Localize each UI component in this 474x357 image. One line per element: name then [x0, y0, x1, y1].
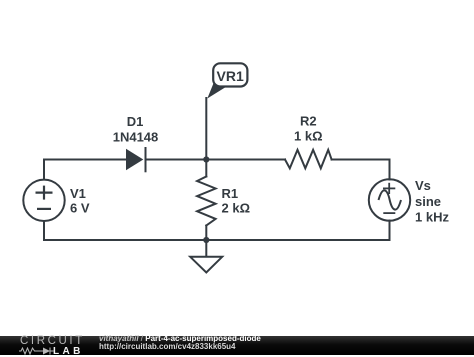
svg-text:1N4148: 1N4148: [113, 130, 159, 145]
svg-text:VR1: VR1: [217, 68, 244, 84]
svg-text:R2: R2: [300, 114, 317, 129]
svg-text:6 V: 6 V: [70, 200, 90, 215]
svg-text:R1: R1: [222, 186, 239, 201]
svg-text:sine: sine: [415, 194, 441, 209]
svg-text:1 kΩ: 1 kΩ: [294, 128, 323, 143]
svg-text:2 kΩ: 2 kΩ: [222, 201, 251, 216]
svg-text:V1: V1: [70, 186, 86, 201]
svg-text:D1: D1: [127, 114, 144, 129]
svg-text:Vs: Vs: [415, 178, 431, 193]
svg-text:1 kHz: 1 kHz: [415, 210, 449, 225]
